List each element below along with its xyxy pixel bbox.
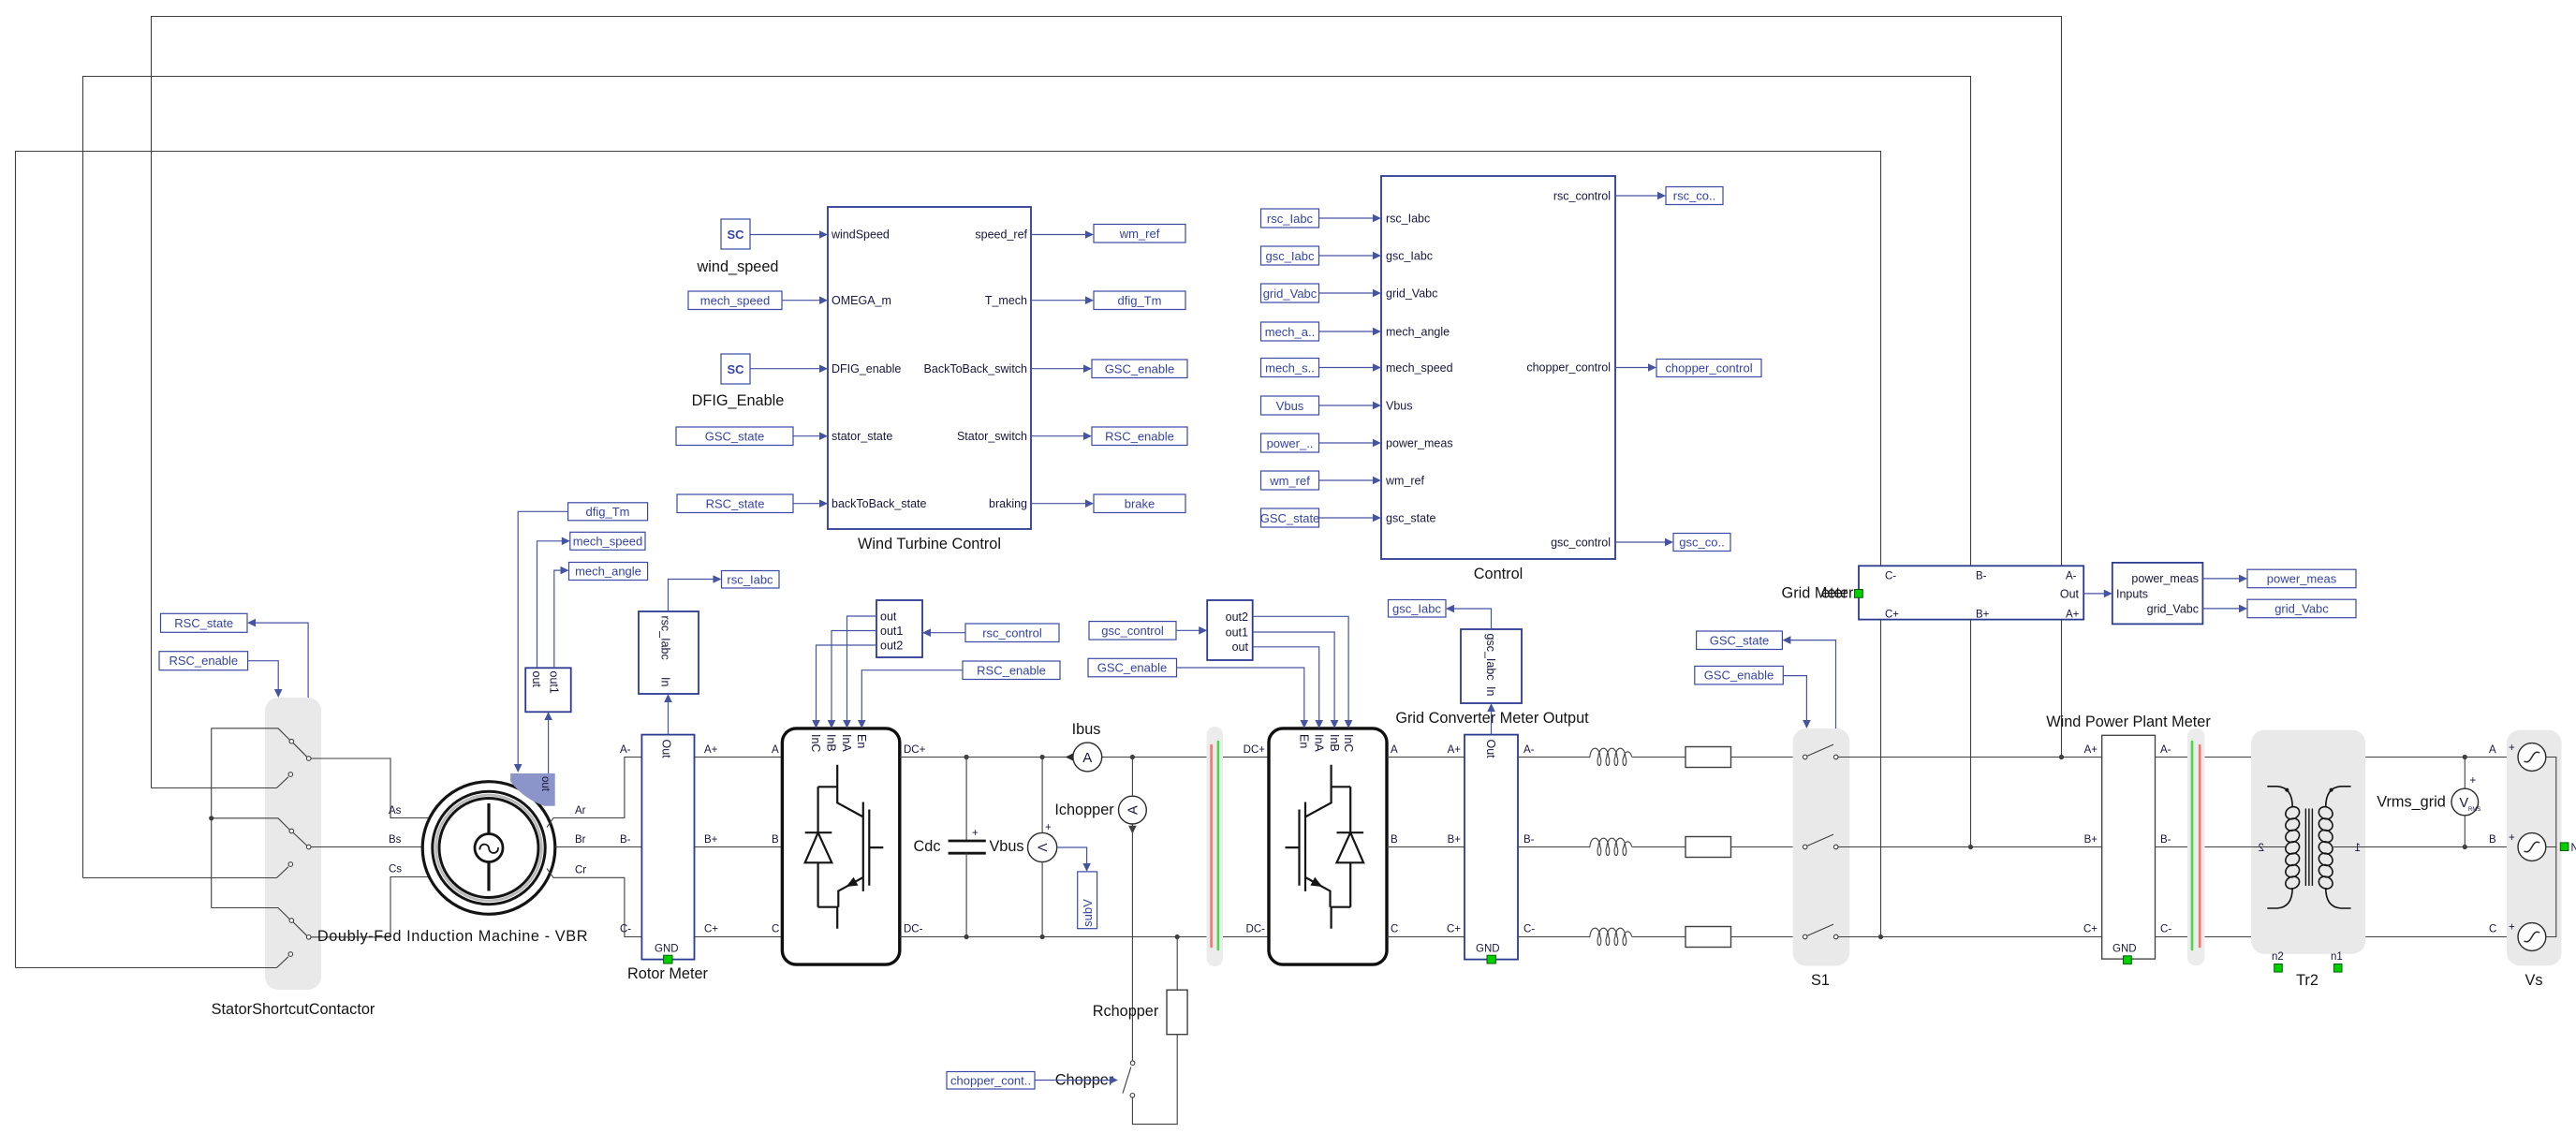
svg-text:GSC_state: GSC_state (705, 429, 765, 443)
gate demux RSC out/out1/out2 (876, 600, 922, 657)
svg-text:GND: GND (2112, 944, 2137, 955)
goto tag mech_angle (569, 563, 648, 581)
svg-text:wm_ref: wm_ref (1269, 474, 1310, 488)
ammeter Ibus (1066, 721, 1102, 772)
svg-text:out2: out2 (1226, 611, 1248, 624)
converter GSC grid side (1269, 728, 1387, 964)
source SC wind_speed (697, 219, 828, 275)
svg-text:subV: subV (1081, 899, 1095, 927)
svg-text:Out: Out (1484, 740, 1497, 759)
ammeter Ichopper (1054, 755, 1146, 1061)
converter RSC rotor side (782, 728, 899, 964)
svg-text:C-: C- (2160, 924, 2171, 935)
svg-text:GSC_state: GSC_state (1710, 633, 1770, 647)
svg-text:A+: A+ (1448, 744, 1462, 756)
switch S1 phase C (1803, 924, 2101, 939)
from tag mech_speed to WTC (688, 291, 828, 310)
svg-text:grid_Vabc: grid_Vabc (2274, 602, 2329, 616)
svg-text:eter: eter (1821, 584, 1848, 601)
svg-text:rsc_Iabc: rsc_Iabc (1267, 212, 1314, 226)
svg-text:Ichopper: Ichopper (1054, 802, 1114, 818)
transformer Tr2 port 1 (2333, 843, 2365, 854)
svg-text:power_meas: power_meas (1386, 437, 1453, 450)
svg-text:gsc_co..: gsc_co.. (1679, 536, 1724, 550)
svg-text:gsc_state: gsc_state (1386, 512, 1436, 525)
goto tag RSC_state (contactor state) (161, 613, 309, 698)
block gsc_Iabc current measurement (1461, 629, 1522, 703)
wire shortcut bus (209, 728, 213, 908)
svg-text:B+: B+ (1976, 610, 1990, 621)
switch contactor shortcut B (83, 862, 293, 878)
svg-text:B+: B+ (704, 834, 718, 846)
from tag gsc_control (1089, 622, 1207, 640)
svg-text:out: out (880, 611, 897, 624)
svg-text:grid_Vabc: grid_Vabc (1263, 287, 1317, 301)
svg-text:grid_Vabc: grid_Vabc (2147, 602, 2199, 615)
svg-text:S1: S1 (1811, 972, 1830, 989)
svg-text:A+: A+ (2084, 744, 2098, 756)
switch contactor pole A (212, 728, 430, 818)
svg-text:A: A (1082, 750, 1092, 766)
from tag mech_a.. to Control (1261, 322, 1382, 341)
svg-text:OMEGA_m: OMEGA_m (832, 294, 891, 307)
svg-text:out: out (530, 671, 543, 688)
from tag grid_Vabc to Control (1261, 284, 1382, 302)
from tag GSC_state to WTC (676, 427, 828, 446)
goto tag rsc_Iabc (722, 571, 780, 589)
svg-text:GSC_enable: GSC_enable (1105, 361, 1174, 375)
svg-text:chopper_cont..: chopper_cont.. (950, 1073, 1031, 1087)
resistor phase C (1685, 927, 1803, 948)
meter Grid Converter Meter Output (1395, 710, 1589, 964)
svg-text:RSC_state: RSC_state (706, 496, 765, 510)
svg-text:braking: braking (989, 497, 1027, 510)
svg-text:grid_Vabc: grid_Vabc (1386, 287, 1437, 301)
svg-text:rsc_co..: rsc_co.. (1673, 189, 1716, 203)
svg-text:B+: B+ (1448, 834, 1462, 846)
svg-text:mech_angle: mech_angle (1386, 326, 1450, 339)
svg-text:Vbus: Vbus (1386, 400, 1413, 413)
signal highlight strip DC link (1207, 727, 1224, 966)
goto tag gsc_Iabc (1389, 600, 1447, 618)
svg-text:mech_speed: mech_speed (700, 293, 770, 307)
svg-text:+: + (1045, 822, 1052, 833)
from tag wm_ref to Control (1261, 471, 1382, 490)
svg-text:rsc_Iabc: rsc_Iabc (727, 572, 773, 586)
resistor Rchopper (1093, 934, 1187, 1035)
goto tag RSC_enable (1031, 427, 1187, 446)
svg-text:wm_ref: wm_ref (1119, 227, 1160, 241)
svg-text:C+: C+ (2083, 924, 2098, 935)
wire rsc_Iabc to goto tag (669, 575, 722, 611)
switch Chopper (1055, 1035, 1177, 1125)
from tag Vbus to Control (1261, 396, 1382, 415)
from tag dfig_Tm (torque input) (514, 503, 648, 772)
switch S1 phase B (1803, 834, 2101, 849)
svg-text:C: C (1391, 924, 1398, 935)
wire grid phase C long feedback (16, 152, 1881, 968)
wire demux out1 to mech_angle (554, 566, 569, 669)
goto tag mech_speed (570, 532, 645, 550)
node N (2560, 843, 2576, 854)
svg-text:RSC_enable: RSC_enable (977, 663, 1046, 677)
wire rotor meter C+ to RSC (695, 924, 783, 937)
svg-text:A: A (2489, 744, 2496, 756)
wire rotor Ar (547, 758, 641, 828)
svg-text:power_..: power_.. (1267, 436, 1314, 450)
from tag power_.. to Control (1261, 434, 1382, 452)
svg-text:C: C (2489, 924, 2496, 935)
svg-text:A-: A- (2066, 571, 2077, 582)
svg-text:Grid Converter Meter Output: Grid Converter Meter Output (1395, 710, 1589, 727)
demux machine measurements (525, 668, 571, 712)
svg-text:InA: InA (1312, 734, 1325, 752)
wire voltmeter to Vbus tag (1057, 847, 1091, 872)
svg-text:B: B (1391, 834, 1398, 846)
svg-text:mech_a..: mech_a.. (1265, 325, 1315, 339)
igbt-diode RSC icon (805, 765, 884, 929)
svg-text:gsc_control: gsc_control (1551, 537, 1611, 550)
from tag gsc_Iabc to Control (1261, 246, 1382, 265)
svg-text:chopper_control: chopper_control (1526, 361, 1611, 375)
gate demux GSC out2/out1/out (1207, 600, 1253, 660)
svg-text:InC: InC (809, 734, 822, 752)
goto tag wm_ref (1031, 225, 1185, 243)
svg-text:Control: Control (1474, 566, 1524, 582)
wire gsc_Iabc to goto tag (1446, 605, 1492, 629)
svg-text:gsc_Iabc: gsc_Iabc (1386, 250, 1433, 263)
contactor StatorShortcutContactor body (212, 698, 375, 1018)
svg-text:V: V (1035, 844, 1049, 852)
block Control (1381, 176, 1615, 582)
svg-text:DC-: DC- (1246, 924, 1266, 935)
voltmeter Vrms_grid (2377, 758, 2480, 847)
source Vs phase C (2509, 922, 2546, 951)
svg-text:+: + (2509, 832, 2515, 844)
from tag RSC_state to WTC (677, 494, 828, 513)
svg-text:Vbus: Vbus (1276, 399, 1304, 413)
svg-text:gsc_Iabc: gsc_Iabc (1484, 634, 1497, 681)
svg-text:InB: InB (825, 734, 838, 752)
svg-text:rsc_Iabc: rsc_Iabc (1386, 213, 1430, 226)
wire grid meter C+ down (1878, 620, 1883, 940)
svg-text:V: V (2460, 796, 2469, 811)
wire machine out to demux (544, 712, 552, 773)
block Wind Turbine Control (828, 207, 1031, 552)
node n2 (2272, 951, 2284, 972)
wire rotor meter A+ to RSC (695, 744, 783, 758)
svg-text:+: + (2470, 775, 2477, 787)
svg-text:A-: A- (620, 744, 631, 756)
goto tag Vbus rotated (1078, 872, 1097, 929)
svg-text:RSC_state: RSC_state (174, 616, 233, 630)
wire grid meter A+ down (2059, 620, 2064, 760)
svg-text:GSC_enable: GSC_enable (1704, 669, 1774, 683)
svg-text:BackToBack_switch: BackToBack_switch (924, 362, 1028, 375)
svg-text:En: En (855, 734, 868, 748)
svg-text:speed_ref: speed_ref (975, 228, 1027, 242)
svg-text:GSC_enable: GSC_enable (1097, 661, 1167, 675)
wire GSC gate out2 to InC (1253, 616, 1353, 728)
svg-text:StatorShortcutContactor: StatorShortcutContactor (212, 1001, 375, 1018)
svg-text:out1: out1 (880, 625, 903, 638)
from tag mech_s.. to Control (1261, 359, 1382, 377)
wire RSC gate out2 to InC (812, 645, 876, 728)
svg-text:N: N (2571, 843, 2576, 854)
source SC DFIG_Enable (692, 354, 828, 409)
svg-text:A: A (772, 744, 779, 756)
wire meter to Tr2 phase C (2156, 936, 2252, 938)
svg-text:A-: A- (1524, 744, 1535, 756)
wire rotor Cr (547, 865, 641, 937)
meter Rotor Meter (620, 735, 718, 982)
svg-text:B+: B+ (2084, 834, 2098, 846)
svg-text:windSpeed: windSpeed (831, 228, 890, 242)
switch S1 phase A (1803, 744, 2101, 759)
wire meter to Tr2 phase B (2156, 846, 2286, 848)
inductor phase B (1518, 838, 1685, 855)
svg-text:Br: Br (575, 834, 586, 846)
source Vs phase A (2509, 743, 2546, 771)
svg-text:DC-: DC- (904, 924, 923, 935)
svg-text:B-: B- (1976, 571, 1987, 582)
goto tag power_meas (2202, 569, 2356, 588)
svg-text:+: + (972, 828, 979, 839)
svg-text:Cdc: Cdc (914, 838, 941, 855)
wire DC+ bus (900, 744, 1269, 758)
svg-text:Out: Out (660, 740, 673, 759)
svg-text:Inputs: Inputs (2116, 587, 2148, 600)
contactor S1 body (1793, 728, 1850, 989)
wire rotor meter Out to rsc_Iabc In (664, 694, 672, 735)
svg-text:B-: B- (620, 834, 631, 846)
wire rotor meter B+ to RSC (695, 834, 783, 847)
wire DC- bus (900, 924, 1269, 937)
svg-text:T_mech: T_mech (985, 294, 1027, 307)
svg-text:DFIG_enable: DFIG_enable (832, 362, 901, 375)
goto tag GSC_enable (1031, 360, 1187, 378)
svg-text:wm_ref: wm_ref (1385, 475, 1425, 488)
svg-text:Stator_switch: Stator_switch (957, 430, 1027, 443)
svg-text:Doubly-Fed Induction Machine -: Doubly-Fed Induction Machine - VBR (317, 928, 588, 945)
svg-text:DFIG_Enable: DFIG_Enable (692, 392, 785, 409)
svg-text:A+: A+ (704, 744, 718, 756)
svg-text:Cr: Cr (575, 865, 586, 876)
svg-text:Wind Turbine Control: Wind Turbine Control (858, 536, 1001, 552)
from tag GSC_enable (S1 command) (1695, 666, 1811, 728)
from tag rsc_control (922, 624, 1059, 642)
svg-text:In: In (659, 677, 672, 686)
svg-text:Vrms_grid: Vrms_grid (2377, 794, 2446, 811)
from tag RSC_enable to En (858, 661, 1060, 728)
machine out port wedge (510, 773, 555, 806)
svg-text:wind_speed: wind_speed (697, 258, 779, 275)
svg-text:Ar: Ar (575, 805, 586, 817)
svg-text:brake: brake (1125, 496, 1156, 510)
svg-text:DC+: DC+ (904, 744, 926, 756)
goto tag dfig_Tm (1031, 291, 1185, 310)
wire Tr2 to Vs phase A (2365, 755, 2518, 759)
svg-text:Rchopper: Rchopper (1093, 1003, 1159, 1020)
svg-text:+: + (2509, 922, 2515, 934)
from tag GSC_enable to En (1088, 658, 1308, 728)
wire GSC gate out1 to InB (1253, 632, 1339, 728)
svg-text:+: + (2509, 743, 2515, 754)
svg-text:C-: C- (1885, 571, 1896, 582)
meter Wind Power Plant Meter (2046, 714, 2211, 964)
from tag GSC_state to Control (1260, 508, 1381, 527)
wire GSC gate out to InA (1253, 647, 1323, 728)
signal highlight strip grid (2187, 728, 2205, 965)
svg-text:out1: out1 (1226, 626, 1248, 640)
svg-text:gsc_Iabc: gsc_Iabc (1265, 249, 1315, 263)
svg-text:mech_speed: mech_speed (1386, 361, 1453, 375)
svg-text:C-: C- (620, 924, 631, 935)
svg-text:out2: out2 (880, 640, 903, 653)
svg-text:n1: n1 (2331, 951, 2343, 963)
inductor phase C (1518, 928, 1685, 945)
transformer Tr2 port 2 (2251, 843, 2285, 854)
svg-text:Tr2: Tr2 (2296, 972, 2318, 989)
svg-text:RMS: RMS (2468, 807, 2480, 813)
wire meter to Tr2 phase A (2156, 757, 2252, 758)
wire Tr2 to Vs phase C (2365, 936, 2518, 938)
block power measurement Inputs (2083, 563, 2202, 625)
block rsc_Iabc current measurement (639, 611, 699, 694)
svg-text:RSC_enable: RSC_enable (169, 654, 238, 668)
svg-text:B: B (2489, 834, 2496, 846)
svg-text:Cs: Cs (389, 864, 402, 875)
svg-text:Bs: Bs (389, 834, 402, 846)
switch contactor shortcut A (152, 772, 293, 788)
transformer Tr2 windings (2267, 787, 2350, 908)
svg-text:En: En (1298, 734, 1311, 748)
svg-text:GSC_state: GSC_state (1260, 511, 1320, 525)
svg-text:2: 2 (2259, 843, 2264, 854)
svg-text:rsc_Iabc: rsc_Iabc (659, 616, 672, 660)
machine Doubly-Fed Induction Machine - VBR (317, 782, 588, 945)
goto tag brake (1031, 494, 1185, 513)
resistor phase A (1685, 747, 1803, 768)
from tag chopper_cont.. (947, 1072, 1118, 1090)
svg-text:B: B (772, 834, 779, 846)
svg-text:1: 1 (2355, 843, 2361, 854)
svg-text:Out: Out (2060, 587, 2080, 600)
from tag RSC_enable (contactor command) (159, 652, 283, 698)
svg-text:C+: C+ (704, 924, 718, 935)
svg-text:B-: B- (2160, 834, 2171, 846)
node n1 (2331, 951, 2343, 972)
goto tag grid_Vabc (2202, 599, 2356, 618)
goto tag rsc_co.. (1615, 187, 1723, 205)
svg-text:out1: out1 (548, 671, 561, 694)
capacitor Cdc (914, 755, 1024, 939)
svg-text:stator_state: stator_state (832, 430, 892, 443)
svg-text:GND: GND (1476, 944, 1500, 955)
svg-text:chopper_control: chopper_control (1665, 361, 1752, 375)
resistor phase B (1685, 837, 1803, 858)
svg-text:InA: InA (840, 734, 853, 752)
svg-text:Ibus: Ibus (1072, 721, 1101, 738)
svg-text:rsc_control: rsc_control (982, 625, 1042, 640)
svg-text:C-: C- (1524, 924, 1535, 935)
svg-text:DC+: DC+ (1244, 744, 1266, 756)
wire GSC C to meter (1387, 924, 1465, 937)
svg-text:mech_speed: mech_speed (573, 534, 642, 548)
wire Vs neutral bus (2546, 758, 2556, 937)
svg-text:B-: B- (1524, 834, 1535, 846)
svg-text:A+: A+ (2066, 610, 2080, 621)
svg-text:rsc_control: rsc_control (1553, 190, 1611, 203)
svg-text:dfig_Tm: dfig_Tm (586, 505, 630, 519)
svg-text:power_meas: power_meas (2267, 572, 2337, 586)
wire Tr2 to Vs phase B (2333, 845, 2518, 849)
svg-text:SC: SC (727, 228, 744, 242)
wire GSC B to meter (1387, 834, 1465, 847)
wire rotor Br (555, 834, 642, 847)
switch contactor pole C (212, 877, 430, 940)
svg-text:power_meas: power_meas (2131, 572, 2199, 585)
svg-text:InC: InC (1342, 734, 1355, 752)
svg-text:As: As (389, 805, 402, 817)
meter Grid Meter (1782, 566, 2084, 620)
wire RSC gate out1 to InB (828, 631, 876, 728)
svg-text:A: A (1126, 805, 1141, 815)
wire grid meter B+ down (1968, 620, 1973, 850)
svg-text:RSC_enable: RSC_enable (1105, 429, 1174, 443)
svg-text:mech_s..: mech_s.. (1265, 360, 1315, 375)
svg-text:Vs: Vs (2524, 972, 2542, 989)
svg-text:GND: GND (655, 944, 679, 955)
wire grid phase B long feedback (83, 77, 1971, 878)
svg-text:InB: InB (1328, 734, 1341, 752)
igbt-diode GSC icon (1286, 765, 1364, 929)
svg-text:A: A (1391, 744, 1398, 756)
wire RSC gate out to InA (843, 616, 876, 728)
wire demux out to mech_speed (537, 537, 570, 669)
svg-text:C+: C+ (1885, 610, 1899, 621)
svg-text:out: out (539, 776, 551, 792)
svg-text:Vbus: Vbus (989, 838, 1023, 855)
goto tag chopper_control (1615, 360, 1761, 377)
switch contactor shortcut C (16, 952, 293, 968)
svg-text:mech_angle: mech_angle (575, 565, 641, 579)
inductor phase A (1518, 748, 1685, 765)
svg-text:C+: C+ (1447, 924, 1461, 935)
svg-text:Wind Power Plant Meter: Wind Power Plant Meter (2046, 714, 2211, 730)
source Vs phase B (2509, 832, 2546, 861)
svg-text:gsc_Iabc: gsc_Iabc (1392, 601, 1442, 615)
svg-text:out: out (1232, 640, 1249, 654)
svg-text:C: C (772, 924, 779, 935)
source Vs three phase (2507, 730, 2562, 989)
svg-text:In: In (1484, 686, 1497, 696)
transformer Tr2 (2251, 730, 2365, 989)
svg-text:n2: n2 (2272, 951, 2284, 963)
svg-text:A-: A- (2160, 744, 2171, 756)
svg-text:Rotor Meter: Rotor Meter (627, 965, 709, 982)
svg-text:gsc_control: gsc_control (1101, 624, 1164, 638)
goto tag GSC_state (S1 state) (1697, 631, 1836, 728)
wire grid phase A long feedback (152, 17, 2062, 788)
svg-text:SC: SC (727, 362, 744, 376)
voltmeter Vbus (1028, 755, 1057, 939)
switch contactor pole B (212, 818, 423, 849)
wire meter Out to gsc_Iabc In (1487, 703, 1495, 735)
goto tag gsc_co.. (1615, 534, 1730, 552)
from tag rsc_Iabc to Control (1261, 209, 1382, 228)
svg-text:dfig_Tm: dfig_Tm (1118, 293, 1162, 307)
